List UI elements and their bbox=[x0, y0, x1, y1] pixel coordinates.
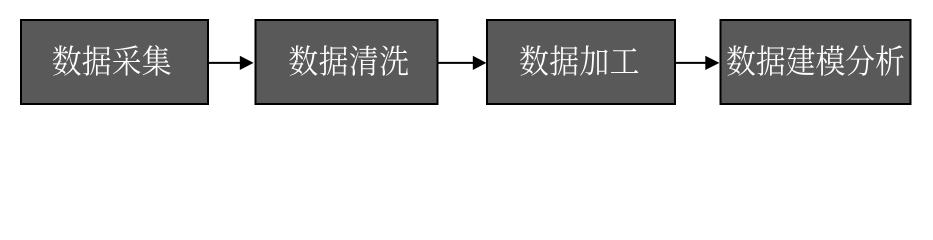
arrow 3: 数据加工 to 数据建模分析 bbox=[676, 56, 719, 70]
process box4 数据建模分析 bbox=[721, 20, 911, 104]
arrow 2: 数据清洗 to 数据加工 bbox=[439, 56, 487, 70]
arrow 1: 数据采集 to 数据清洗 bbox=[209, 56, 254, 70]
process box2 数据清洗 bbox=[256, 20, 438, 104]
process box3 数据加工 bbox=[487, 20, 675, 104]
process box1 数据采集 bbox=[21, 20, 208, 104]
